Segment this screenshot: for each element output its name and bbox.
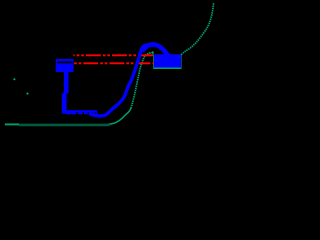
green ghost rectangle behind right block (153, 54, 181, 69)
green dotted S-curve steep section (131, 52, 153, 108)
tooth 1 (66, 112, 76, 114)
blue base line with teeth (62, 110, 97, 112)
tooth 6 (96, 112, 97, 114)
blue block right (154, 54, 181, 67)
blue thick track curve (89, 45, 151, 116)
green point marker B (26, 93, 28, 95)
green curve end blob near block corner (152, 51, 153, 54)
tooth 4 (89, 112, 92, 114)
green point marker A (13, 78, 15, 80)
piston slot (57, 61, 73, 63)
green flat segment bottom-left (5, 123, 20, 125)
piston body (56, 59, 74, 72)
blue hill arc overlay (142, 44, 169, 57)
piston lower stem (62, 93, 67, 113)
tooth 5 (93, 112, 95, 114)
green dotted rising curve right (181, 3, 214, 55)
tooth 2 (78, 112, 83, 114)
green solid S-curve lower left (108, 108, 131, 124)
red dash-dot level line 1 (73, 54, 153, 56)
tooth 3 (84, 112, 88, 114)
piston upper stem (64, 72, 69, 94)
red dash-dot level line 2 (74, 62, 154, 64)
dark green ground line (19, 124, 110, 127)
